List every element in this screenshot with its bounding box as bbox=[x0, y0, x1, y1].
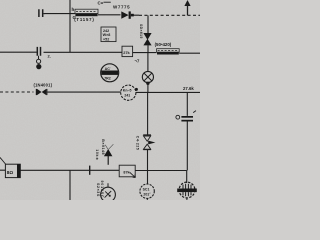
junction dot below lamp bbox=[146, 82, 149, 85]
adjust arrow pointing up bbox=[104, 149, 113, 156]
capacitor tick on line D bbox=[89, 166, 91, 175]
node label C5 top edge bbox=[98, 1, 104, 6]
wire stub top edge bbox=[104, 1, 111, 3]
value label (50-420) bbox=[155, 42, 172, 47]
zener diode VD1 (vertical hourglass) bbox=[143, 33, 151, 45]
inductor L1 with dashed core bbox=[75, 9, 98, 16]
diode D2 bowtie on line C bbox=[36, 89, 48, 95]
speaker cone diagonal bbox=[0, 157, 6, 164]
diode D1 label W7775 bbox=[113, 5, 130, 10]
transistor Q1 top stub bbox=[107, 183, 109, 187]
inductor L2 with dashed core on line B bbox=[157, 49, 180, 55]
antenna arrow top right bbox=[184, 0, 190, 6]
mid rail to line D bbox=[147, 150, 149, 170]
wire lamp to line C bbox=[147, 83, 149, 92]
polarity o label bbox=[176, 115, 180, 119]
node label h/G right of rail bbox=[72, 7, 77, 20]
net label 27.6 right end bbox=[183, 86, 194, 91]
mid rail x=147.5 below line C bbox=[147, 92, 149, 135]
rotated label C7+47 bbox=[136, 136, 140, 150]
lamp rail from line B bbox=[147, 53, 149, 72]
scan grain overlay bbox=[0, 0, 1, 1]
meter M1 circle with dark band bbox=[101, 64, 119, 82]
terminal below C2: stem, open circle, solder dot bbox=[38, 56, 40, 60]
bottom horizontal line D bbox=[0, 169, 187, 171]
right rail below battery bbox=[186, 122, 188, 171]
wire diagonal above arrow bbox=[105, 144, 113, 149]
wire vertical rail x=70 top bbox=[69, 0, 71, 52]
junction dot line C bbox=[135, 88, 138, 91]
right rail x=187 upper segment bbox=[186, 92, 188, 116]
transistor Q1 circle bbox=[101, 187, 116, 202]
wire top line E dashed right segment bbox=[139, 14, 200, 16]
battery/electrolytic BT1 plates bbox=[181, 116, 193, 122]
wire top line E left segment bbox=[45, 14, 140, 16]
rotated label column R9 bbox=[101, 139, 105, 155]
transistor Q2 circle bbox=[140, 184, 154, 200]
label 7 below resistor bbox=[135, 59, 140, 64]
line C solid segment bbox=[47, 91, 200, 93]
earpiece B1 circle with dense band bbox=[177, 182, 197, 200]
rotated label column second bbox=[96, 183, 100, 197]
wire rail x=148 to line B bbox=[147, 45, 149, 52]
diode D1 bbox=[121, 11, 134, 18]
resistor box 87k on line D bbox=[119, 165, 135, 177]
value label 2 bbox=[48, 53, 51, 58]
note box with spec text bbox=[101, 27, 116, 42]
capacitor C1 (top-left) bbox=[39, 9, 45, 17]
main horizontal line B bbox=[0, 52, 200, 53]
transistor Q3 circle on line C bbox=[121, 85, 136, 100]
rotated label SD-615 bbox=[139, 24, 143, 39]
zener diode VD2 (vertical hourglass) bbox=[143, 135, 155, 150]
diode D2 label (1N4001) bbox=[34, 82, 53, 87]
dashed line C left segment bbox=[0, 91, 34, 93]
value label (T1157) bbox=[74, 17, 94, 22]
resistor box 27k on line B bbox=[122, 46, 133, 56]
rotated label column 9013 bbox=[100, 181, 104, 199]
wire mid rail to transistor Q2 bbox=[147, 171, 149, 185]
rotated label column 10k bbox=[95, 149, 99, 160]
wire rail x=70 bottom bbox=[69, 170, 71, 200]
right rail to earpiece bbox=[186, 171, 188, 184]
polarity + tick bbox=[193, 111, 196, 113]
wire rail x=148 upper bbox=[147, 15, 149, 33]
lamp HL1 (circle with X) bbox=[142, 71, 153, 82]
capacitor C2 on line B bbox=[37, 47, 40, 56]
variable arrow through box bbox=[130, 172, 136, 177]
speaker BL 8ohm box bbox=[5, 164, 20, 177]
